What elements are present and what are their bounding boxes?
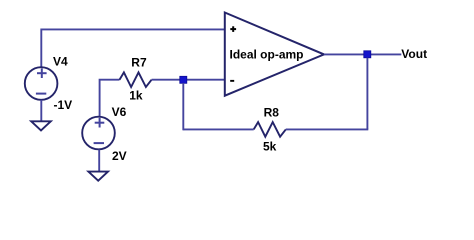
svg-text:V6: V6 xyxy=(112,105,127,119)
wire xyxy=(324,53,401,55)
resistor R8 xyxy=(254,122,286,137)
voltage source V4 xyxy=(25,67,58,100)
wire xyxy=(40,100,42,122)
svg-text:Vout: Vout xyxy=(401,47,427,61)
op-amp U1 xyxy=(225,13,324,96)
wire xyxy=(100,80,120,117)
wire xyxy=(286,128,369,130)
ground xyxy=(31,121,51,130)
svg-text:5k: 5k xyxy=(263,139,277,153)
node xyxy=(364,51,371,58)
svg-text:V4: V4 xyxy=(53,55,68,69)
svg-text:R8: R8 xyxy=(264,105,280,119)
resistor R7 xyxy=(120,72,152,87)
svg-text:1k: 1k xyxy=(129,89,143,103)
svg-text:Ideal op-amp: Ideal op-amp xyxy=(230,48,304,62)
wire xyxy=(98,150,100,173)
wire xyxy=(152,79,225,81)
wire xyxy=(366,58,368,130)
node xyxy=(180,76,187,83)
wire xyxy=(182,83,184,130)
wire xyxy=(41,29,225,67)
svg-text:2V: 2V xyxy=(112,149,127,163)
svg-text:R7: R7 xyxy=(131,56,147,70)
ground xyxy=(88,172,108,181)
voltage source V6 xyxy=(82,117,115,150)
wire xyxy=(183,128,253,130)
svg-text:-1V: -1V xyxy=(54,98,73,112)
